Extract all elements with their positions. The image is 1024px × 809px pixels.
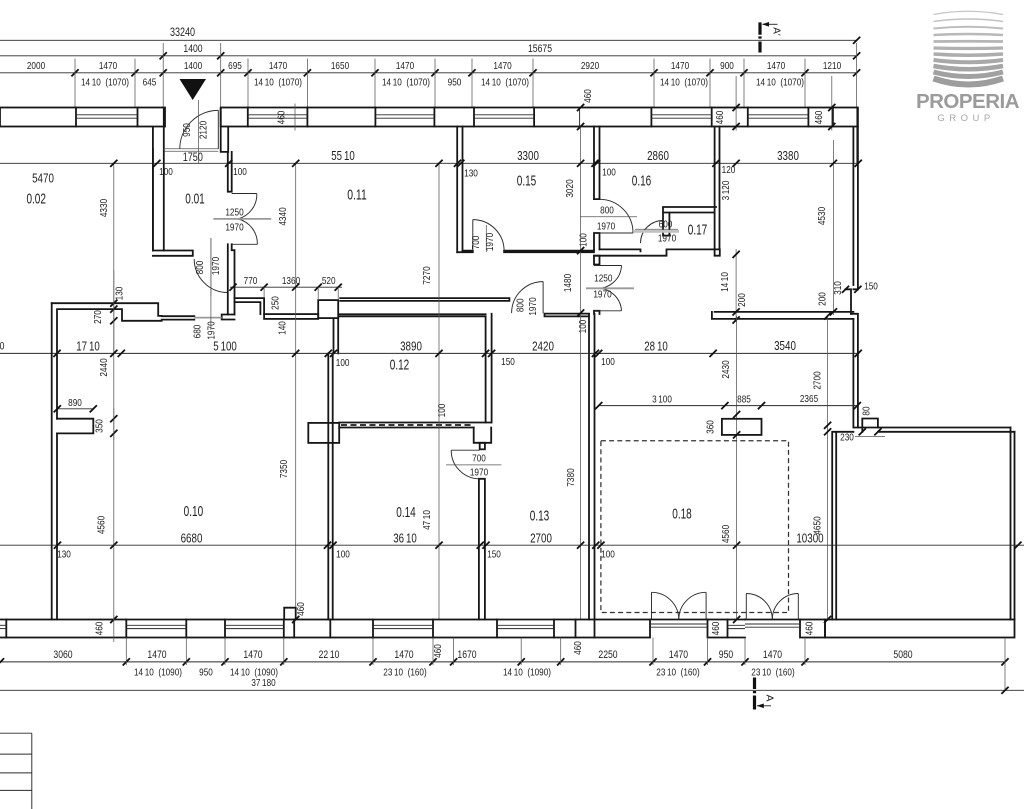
svg-text:700: 700 xyxy=(472,452,486,464)
svg-text:1970: 1970 xyxy=(470,466,488,478)
svg-text:2420: 2420 xyxy=(532,340,554,354)
svg-text:645: 645 xyxy=(143,77,157,89)
svg-text:100: 100 xyxy=(578,233,590,247)
svg-text:33240: 33240 xyxy=(170,27,195,39)
pillar 360 in 0.18 xyxy=(705,419,762,435)
wall thickness dims 460 in top band xyxy=(276,76,836,131)
svg-text:0.12: 0.12 xyxy=(390,357,410,374)
corridor door 800 arc xyxy=(512,282,543,316)
entrance marker triangle xyxy=(180,79,207,100)
svg-text:460: 460 xyxy=(94,622,106,636)
vline 4330/2440/4560 x113.8 xyxy=(96,160,118,623)
svg-text:2365: 2365 xyxy=(800,393,818,405)
vline 7270/4710 x439 xyxy=(421,160,443,620)
svg-text:3020: 3020 xyxy=(564,179,576,197)
svg-text:360: 360 xyxy=(705,420,717,434)
wall 0.01/0.11 vertical upper xyxy=(228,152,232,192)
svg-text:55 10: 55 10 xyxy=(331,149,355,163)
svg-text:200: 200 xyxy=(736,293,748,307)
vline 2430/4560 x736.6 xyxy=(720,316,740,623)
svg-text:14 10 (1090): 14 10 (1090) xyxy=(503,667,551,679)
svg-text:900: 900 xyxy=(720,60,734,72)
svg-text:150: 150 xyxy=(487,549,501,561)
svg-text:1970: 1970 xyxy=(658,233,676,245)
vline 3120 x727 short xyxy=(720,180,732,200)
room 0.16 door 800 arc xyxy=(578,199,638,247)
svg-text:1210: 1210 xyxy=(823,60,841,72)
wall 0.12 left upper xyxy=(334,318,339,353)
entrance door leaf and arc xyxy=(180,100,219,163)
svg-text:14 10 (1070): 14 10 (1070) xyxy=(660,77,708,89)
door 700 to room 0.14 xyxy=(436,404,501,479)
dim line y542 room widths bottom xyxy=(0,531,1024,560)
svg-text:1650: 1650 xyxy=(331,60,349,72)
svg-text:1470: 1470 xyxy=(763,649,782,661)
svg-text:47 10: 47 10 xyxy=(421,510,433,530)
svg-text:1250: 1250 xyxy=(225,207,243,219)
svg-text:4560: 4560 xyxy=(96,516,108,534)
svg-text:3300: 3300 xyxy=(517,149,539,163)
svg-text:A′: A′ xyxy=(771,27,783,36)
svg-text:100: 100 xyxy=(436,404,448,418)
svg-text:17 10: 17 10 xyxy=(76,340,100,354)
corridor north wall east part xyxy=(545,314,590,317)
room 0.16/0.17 bottom wall xyxy=(594,249,720,255)
svg-text:100: 100 xyxy=(601,356,615,368)
svg-text:1970: 1970 xyxy=(225,222,243,234)
room 0.17 door 600 arc xyxy=(635,219,678,245)
svg-text:22 10: 22 10 xyxy=(319,649,340,661)
svg-text:5470: 5470 xyxy=(32,172,54,186)
svg-text:100: 100 xyxy=(336,549,350,561)
svg-text:0.17: 0.17 xyxy=(688,222,708,239)
hatched wall 0.12/0.14 xyxy=(339,423,491,428)
svg-text:460: 460 xyxy=(572,641,584,655)
svg-text:5080: 5080 xyxy=(893,649,912,661)
svg-text:1470: 1470 xyxy=(767,60,785,72)
dim 130/270 near 0.02 corner xyxy=(92,270,126,353)
wall 0.16 right vertical xyxy=(715,127,720,255)
svg-text:1970: 1970 xyxy=(484,233,496,251)
svg-text:150: 150 xyxy=(864,281,878,293)
svg-text:100: 100 xyxy=(577,320,589,334)
svg-text:460: 460 xyxy=(813,111,825,125)
svg-text:3 100: 3 100 xyxy=(652,394,672,406)
svg-text:1400: 1400 xyxy=(184,60,202,72)
svg-text:100: 100 xyxy=(233,166,247,178)
svg-text:7350: 7350 xyxy=(278,460,290,478)
double door 1250 between 0.01 and 0.11 xyxy=(213,194,271,245)
svg-text:100: 100 xyxy=(602,167,616,179)
svg-text:14 10 (1090): 14 10 (1090) xyxy=(134,667,182,679)
svg-text:7270: 7270 xyxy=(421,266,433,284)
svg-text:1470: 1470 xyxy=(147,649,166,661)
svg-text:1970: 1970 xyxy=(206,321,218,339)
corridor south wall dark segment + threshold 680 xyxy=(162,238,222,340)
svg-text:80: 80 xyxy=(861,406,873,415)
svg-text:2120: 2120 xyxy=(198,121,210,139)
svg-text:0: 0 xyxy=(0,341,4,353)
svg-text:5 100: 5 100 xyxy=(213,340,237,354)
wall room 0.01 bottom with door 800 xyxy=(153,238,228,295)
svg-text:1970: 1970 xyxy=(210,257,222,275)
svg-text:1470: 1470 xyxy=(669,649,688,661)
bottom dim line A y661.9 xyxy=(0,649,1009,666)
svg-text:1400: 1400 xyxy=(183,43,202,55)
wall 0.01/0.11 vertical lower knot xyxy=(222,244,235,319)
bottom long line B y690.3 xyxy=(0,687,1024,694)
radiator grey bar in 0.16 xyxy=(634,230,679,233)
svg-text:1480: 1480 xyxy=(562,274,574,292)
svg-text:6680: 6680 xyxy=(181,531,203,545)
svg-text:200: 200 xyxy=(817,292,829,306)
svg-text:950: 950 xyxy=(448,77,462,89)
svg-text:1470: 1470 xyxy=(394,649,413,661)
room 0.15 bottom wall with door 700 xyxy=(457,220,594,253)
svg-text:140: 140 xyxy=(277,321,289,335)
svg-text:2000: 2000 xyxy=(27,60,45,72)
svg-text:15675: 15675 xyxy=(528,43,552,55)
svg-text:120: 120 xyxy=(722,164,736,176)
wall 0.11/0.15 vertical xyxy=(457,127,462,253)
svg-text:0.02: 0.02 xyxy=(26,191,46,208)
svg-text:2440: 2440 xyxy=(98,358,110,376)
svg-text:950: 950 xyxy=(181,123,193,137)
section mark A-prime top xyxy=(760,22,783,53)
room 0.17 top wall and left wall xyxy=(663,207,716,236)
svg-text:1670: 1670 xyxy=(457,649,476,661)
dim chain row3 piers line xyxy=(0,60,860,76)
svg-text:23 10 (160): 23 10 (160) xyxy=(383,667,426,679)
svg-text:350: 350 xyxy=(94,419,106,433)
svg-text:885: 885 xyxy=(737,394,751,406)
svg-text:14 10 (1070): 14 10 (1070) xyxy=(481,77,529,89)
big right room walls xyxy=(832,428,1014,620)
svg-text:14 10 (1070): 14 10 (1070) xyxy=(756,77,804,89)
svg-text:1970: 1970 xyxy=(593,289,611,301)
svg-text:100: 100 xyxy=(601,549,615,561)
svg-text:0.11: 0.11 xyxy=(347,187,367,204)
svg-text:3380: 3380 xyxy=(777,149,799,163)
svg-text:2860: 2860 xyxy=(647,149,669,163)
svg-text:1470: 1470 xyxy=(396,60,414,72)
svg-text:2700: 2700 xyxy=(812,371,824,389)
wall top-right room bottom xyxy=(712,312,854,319)
svg-text:100: 100 xyxy=(336,357,350,369)
svg-text:14 10: 14 10 xyxy=(719,272,731,292)
svg-text:460: 460 xyxy=(804,622,816,636)
wall room 0.01 left xyxy=(153,149,164,251)
svg-text:460: 460 xyxy=(295,602,307,616)
svg-text:3 120: 3 120 xyxy=(720,180,732,200)
vertical dim 4530 line xyxy=(816,140,837,316)
vertical dim 1480 label xyxy=(562,274,574,292)
bottom dim row2 window labels xyxy=(134,667,795,690)
svg-text:460: 460 xyxy=(714,111,726,125)
svg-text:770: 770 xyxy=(244,275,258,287)
svg-text:890: 890 xyxy=(68,397,82,409)
niche small above band x284 xyxy=(284,602,307,619)
wall 0.14/0.13 vertical with door 700 xyxy=(474,314,492,620)
svg-text:1470: 1470 xyxy=(493,60,511,72)
vline 4340/7350 x295.7 xyxy=(277,160,299,623)
french door 1 arcs xyxy=(650,592,708,627)
svg-text:460: 460 xyxy=(582,89,594,103)
svg-text:800: 800 xyxy=(600,205,614,217)
svg-text:0.10: 0.10 xyxy=(184,503,204,520)
svg-text:3540: 3540 xyxy=(774,339,796,353)
svg-text:23 10 (160): 23 10 (160) xyxy=(656,667,699,679)
stepped wall 0.11 south xyxy=(235,298,339,319)
svg-text:0.16: 0.16 xyxy=(632,173,652,190)
svg-text:1470: 1470 xyxy=(99,60,117,72)
svg-text:1250: 1250 xyxy=(594,273,612,285)
svg-text:2920: 2920 xyxy=(581,60,599,72)
vline 3020/1480/7380 x580.6 xyxy=(564,127,584,620)
stairs bottom-left xyxy=(0,733,32,809)
logo Properia Group xyxy=(916,11,1020,124)
svg-text:0.15: 0.15 xyxy=(517,173,537,190)
svg-text:270: 270 xyxy=(92,310,104,324)
notch 230/80 step xyxy=(840,406,885,443)
svg-text:14 10 (1070): 14 10 (1070) xyxy=(382,77,430,89)
bottom wall piers xyxy=(6,620,1014,638)
svg-text:2250: 2250 xyxy=(598,649,617,661)
entrance porch walls xyxy=(153,109,228,251)
svg-text:520: 520 xyxy=(322,275,336,287)
svg-text:1470: 1470 xyxy=(671,60,689,72)
svg-text:695: 695 xyxy=(228,60,242,72)
svg-text:36 10: 36 10 xyxy=(393,531,417,545)
svg-text:950: 950 xyxy=(199,667,213,679)
svg-text:680: 680 xyxy=(192,325,204,339)
corridor north wall xyxy=(340,298,509,301)
svg-text:37 180: 37 180 xyxy=(251,677,275,689)
bottom extension stubs xyxy=(126,638,1005,691)
svg-text:460: 460 xyxy=(276,111,288,125)
room 0.02/0.10 left exterior wall xyxy=(52,303,57,619)
svg-text:GROUP: GROUP xyxy=(937,113,994,124)
svg-text:7380: 7380 xyxy=(565,468,577,486)
svg-text:250: 250 xyxy=(270,296,282,310)
dashed boundary room 0.18 xyxy=(601,441,789,613)
dim 770/1360/520 line xyxy=(229,275,342,335)
svg-text:0.18: 0.18 xyxy=(672,506,692,523)
svg-text:1970: 1970 xyxy=(527,297,539,315)
svg-text:0.14: 0.14 xyxy=(396,504,416,521)
svg-text:1970: 1970 xyxy=(597,221,615,233)
svg-text:4330: 4330 xyxy=(98,199,110,217)
svg-text:700: 700 xyxy=(470,236,482,250)
svg-text:1750: 1750 xyxy=(183,152,203,164)
dim chain total 33240 line xyxy=(0,27,860,44)
extension stubs top xyxy=(75,43,857,163)
svg-text:4340: 4340 xyxy=(277,207,289,225)
vline 2700/4650 x827.6 xyxy=(812,312,832,623)
svg-text:0.01: 0.01 xyxy=(185,191,205,208)
svg-text:150: 150 xyxy=(501,356,515,368)
dim line y353 room widths xyxy=(0,339,862,369)
room labels xyxy=(26,173,707,525)
wall 0.15/0.16 vertical xyxy=(594,127,600,250)
svg-text:130: 130 xyxy=(114,287,126,301)
niche 890x350 in left wall xyxy=(54,358,118,440)
svg-text:800: 800 xyxy=(515,298,527,312)
dim line rooms top y163 xyxy=(0,149,862,186)
top exterior wall piers xyxy=(0,108,858,127)
svg-text:14 10 (1070): 14 10 (1070) xyxy=(81,77,129,89)
svg-text:460: 460 xyxy=(432,644,444,658)
svg-text:1470: 1470 xyxy=(269,60,287,72)
svg-text:A: A xyxy=(764,694,776,701)
wall 0.13/0.18 vertical xyxy=(577,314,595,620)
dim 150/310/200 step xyxy=(817,281,878,306)
svg-text:10300: 10300 xyxy=(796,531,823,545)
double door 1250 lower in wall x589 xyxy=(586,256,634,314)
bottom wall windows xyxy=(0,620,745,638)
exterior wall right upper xyxy=(846,127,858,427)
dim chain 1400/15675 line xyxy=(0,43,860,59)
dim row4 window sizes xyxy=(81,77,804,89)
dim line 3100/885/2365 xyxy=(595,393,861,409)
svg-text:PROPERIA: PROPERIA xyxy=(916,90,1020,113)
svg-text:130: 130 xyxy=(464,168,478,180)
top wall windows xyxy=(76,108,808,127)
svg-text:950: 950 xyxy=(719,649,733,661)
svg-text:4530: 4530 xyxy=(816,207,828,225)
room 0.02 bottom wall xyxy=(52,303,162,321)
svg-text:0.13: 0.13 xyxy=(530,508,550,525)
section mark A bottom xyxy=(755,678,776,710)
svg-text:600: 600 xyxy=(659,219,673,231)
460 labels in bottom band xyxy=(94,615,816,658)
wall 0.10/0.14 vertical xyxy=(328,353,332,619)
svg-text:3060: 3060 xyxy=(53,649,72,661)
svg-text:4560: 4560 xyxy=(720,525,732,543)
svg-text:2430: 2430 xyxy=(720,360,732,378)
svg-text:1470: 1470 xyxy=(243,649,262,661)
svg-text:14 10 (1070): 14 10 (1070) xyxy=(254,77,302,89)
svg-text:460: 460 xyxy=(710,622,722,636)
svg-text:3890: 3890 xyxy=(400,340,422,354)
svg-text:2700: 2700 xyxy=(530,531,552,545)
svg-text:800: 800 xyxy=(194,261,206,275)
svg-text:130: 130 xyxy=(57,549,71,561)
svg-text:28 10: 28 10 xyxy=(644,340,668,354)
room 0.12 top wall xyxy=(339,314,486,316)
svg-text:100: 100 xyxy=(159,166,173,178)
opening dim 1410/200 right xyxy=(719,249,748,324)
svg-text:230: 230 xyxy=(840,432,854,444)
svg-text:23 10 (160): 23 10 (160) xyxy=(751,667,794,679)
french door 2 arcs xyxy=(745,594,800,628)
pier box on wall 0.10 xyxy=(308,423,339,443)
